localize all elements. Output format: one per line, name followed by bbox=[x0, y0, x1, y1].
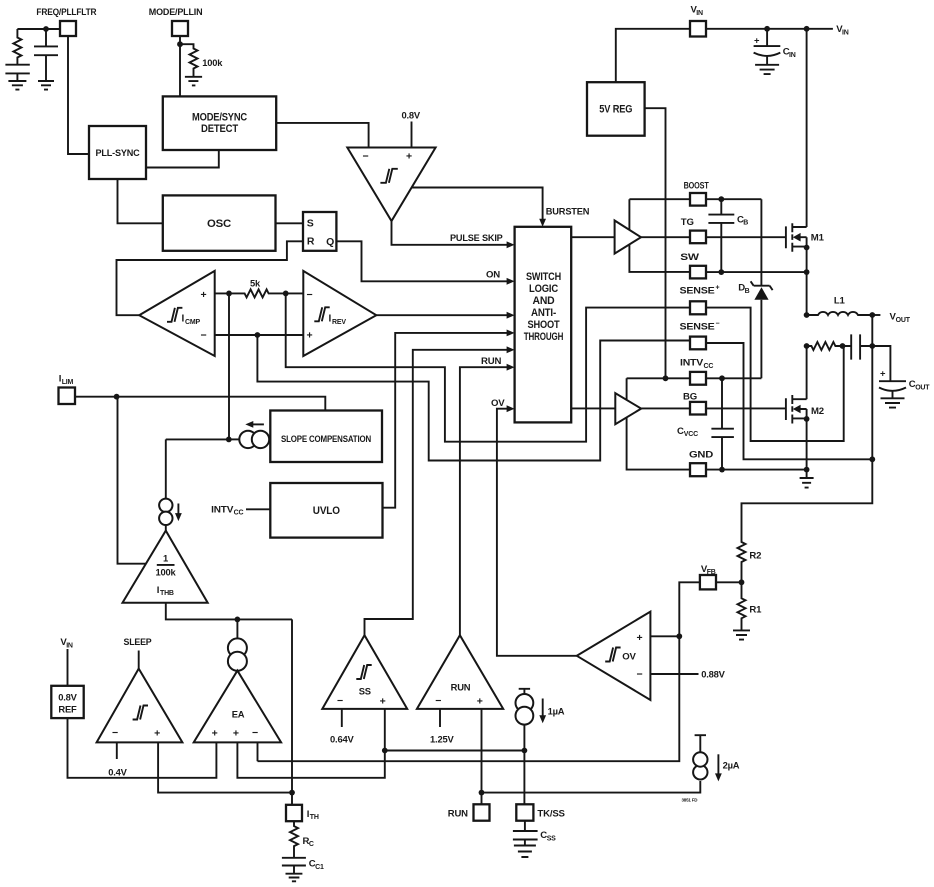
svg-text:−: − bbox=[337, 695, 343, 707]
svg-text:PLL-SYNC: PLL-SYNC bbox=[96, 147, 140, 158]
svg-text:+: + bbox=[201, 289, 207, 301]
svg-text:VCC: VCC bbox=[684, 431, 698, 438]
svg-text:5k: 5k bbox=[250, 278, 261, 289]
svg-text:SS: SS bbox=[359, 685, 371, 696]
svg-text:100k: 100k bbox=[202, 58, 223, 69]
svg-text:BURSTEN: BURSTEN bbox=[546, 207, 590, 218]
svg-text:+: + bbox=[637, 632, 643, 644]
svg-text:+: + bbox=[233, 728, 239, 740]
svg-text:−: − bbox=[363, 151, 369, 163]
svg-text:SW: SW bbox=[680, 252, 700, 263]
svg-text:IN: IN bbox=[789, 52, 796, 59]
svg-text:THROUGH: THROUGH bbox=[524, 331, 564, 343]
svg-text:UVLO: UVLO bbox=[313, 505, 341, 517]
svg-text:CC: CC bbox=[704, 363, 714, 370]
svg-text:+: + bbox=[154, 728, 160, 740]
svg-text:RUN: RUN bbox=[451, 681, 471, 692]
svg-text:SWITCH: SWITCH bbox=[526, 271, 561, 283]
svg-text:SHOOT: SHOOT bbox=[528, 319, 560, 331]
svg-text:IN: IN bbox=[696, 10, 703, 17]
svg-text:+: + bbox=[212, 728, 218, 740]
svg-text:TG: TG bbox=[681, 217, 694, 228]
svg-text:0.64V: 0.64V bbox=[330, 733, 354, 744]
svg-text:−: − bbox=[201, 330, 207, 342]
svg-text:OV: OV bbox=[622, 652, 636, 663]
svg-text:ANTI-: ANTI- bbox=[531, 307, 556, 319]
svg-text:RUN: RUN bbox=[448, 809, 468, 820]
svg-text:REV: REV bbox=[332, 319, 346, 326]
svg-text:0.88V: 0.88V bbox=[701, 669, 725, 680]
svg-text:INTV: INTV bbox=[211, 504, 234, 515]
svg-text:Q: Q bbox=[326, 236, 334, 248]
svg-text:−: − bbox=[307, 289, 313, 301]
svg-text:+: + bbox=[716, 285, 720, 292]
svg-text:CC: CC bbox=[234, 510, 244, 517]
svg-text:5V REG: 5V REG bbox=[599, 104, 632, 116]
svg-text:LIM: LIM bbox=[62, 379, 74, 386]
svg-text:R1: R1 bbox=[749, 605, 762, 616]
svg-text:−: − bbox=[637, 669, 643, 681]
svg-text:CMP: CMP bbox=[185, 319, 200, 326]
svg-text:0.8V: 0.8V bbox=[402, 109, 421, 120]
svg-text:+: + bbox=[406, 151, 412, 163]
svg-text:SLOPE COMPENSATION: SLOPE COMPENSATION bbox=[281, 433, 371, 444]
svg-text:1.25V: 1.25V bbox=[430, 733, 454, 744]
svg-text:1: 1 bbox=[163, 553, 168, 564]
svg-text:+: + bbox=[477, 695, 483, 707]
svg-text:BOOST: BOOST bbox=[684, 181, 709, 192]
svg-text:RUN: RUN bbox=[481, 356, 501, 367]
svg-text:C: C bbox=[309, 841, 314, 848]
svg-text:SENSE: SENSE bbox=[680, 286, 716, 297]
svg-text:TK/SS: TK/SS bbox=[537, 809, 565, 820]
svg-text:EA: EA bbox=[232, 708, 245, 719]
svg-text:B: B bbox=[743, 220, 748, 227]
svg-text:INTV: INTV bbox=[680, 358, 704, 369]
svg-text:M2: M2 bbox=[811, 406, 824, 417]
svg-text:S: S bbox=[307, 218, 314, 230]
svg-text:3851 FD: 3851 FD bbox=[682, 798, 699, 803]
svg-text:100k: 100k bbox=[155, 566, 176, 577]
svg-text:R2: R2 bbox=[749, 551, 761, 562]
svg-text:R: R bbox=[307, 236, 315, 248]
svg-text:ON: ON bbox=[486, 270, 500, 281]
svg-text:SENSE: SENSE bbox=[680, 322, 716, 333]
svg-text:B: B bbox=[745, 288, 750, 295]
svg-text:SS: SS bbox=[547, 836, 556, 843]
svg-text:−: − bbox=[252, 727, 258, 739]
svg-text:OUT: OUT bbox=[896, 317, 911, 324]
svg-text:FREQ/PLLFLTR: FREQ/PLLFLTR bbox=[36, 7, 96, 18]
svg-text:MODE/PLLIN: MODE/PLLIN bbox=[149, 7, 203, 18]
svg-text:TH: TH bbox=[310, 814, 319, 821]
svg-text:0.4V: 0.4V bbox=[108, 767, 127, 778]
svg-text:+: + bbox=[307, 330, 313, 342]
svg-text:OUT: OUT bbox=[915, 385, 930, 392]
svg-text:+: + bbox=[880, 368, 886, 379]
svg-text:PULSE SKIP: PULSE SKIP bbox=[450, 233, 503, 244]
svg-text:0.8V: 0.8V bbox=[58, 691, 77, 702]
svg-text:+: + bbox=[754, 35, 760, 46]
svg-text:SLEEP: SLEEP bbox=[124, 636, 152, 647]
svg-text:−: − bbox=[435, 695, 441, 707]
svg-text:MODE/SYNC: MODE/SYNC bbox=[192, 112, 247, 124]
svg-text:OSC: OSC bbox=[207, 218, 231, 230]
svg-text:REF: REF bbox=[58, 703, 77, 714]
svg-text:−: − bbox=[112, 727, 118, 739]
svg-text:AND: AND bbox=[533, 295, 555, 307]
svg-text:GND: GND bbox=[689, 450, 713, 461]
svg-text:1µA: 1µA bbox=[548, 705, 565, 716]
svg-text:+: + bbox=[380, 695, 386, 707]
svg-text:IN: IN bbox=[66, 643, 73, 650]
svg-text:C1: C1 bbox=[315, 864, 324, 871]
svg-text:M1: M1 bbox=[811, 232, 825, 243]
svg-text:THB: THB bbox=[160, 590, 174, 597]
svg-text:2µA: 2µA bbox=[723, 759, 740, 770]
svg-text:L1: L1 bbox=[834, 296, 846, 307]
svg-text:OV: OV bbox=[491, 398, 505, 409]
svg-text:LOGIC: LOGIC bbox=[529, 283, 558, 295]
svg-text:FB: FB bbox=[707, 569, 716, 576]
svg-text:DETECT: DETECT bbox=[201, 123, 238, 135]
svg-text:IN: IN bbox=[842, 30, 849, 37]
svg-text:−: − bbox=[716, 321, 720, 328]
